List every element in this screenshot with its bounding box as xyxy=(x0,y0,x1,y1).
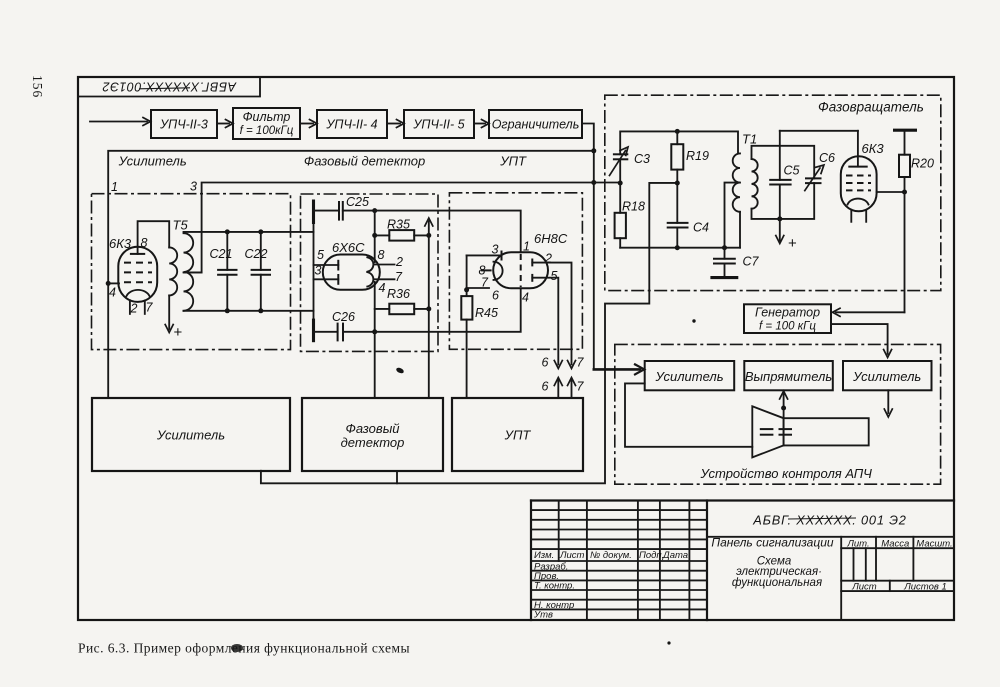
anode lead to T5 primary xyxy=(138,221,170,254)
svg-text:8: 8 xyxy=(378,248,385,262)
anode plate xyxy=(848,166,867,168)
wire: limiter output down the right side xyxy=(582,124,594,370)
T5 secondary winding xyxy=(184,233,194,311)
pin 7 stub xyxy=(144,301,146,314)
block Усилитель xyxy=(92,398,290,471)
variable capacitor drive trapezoid xyxy=(752,406,783,457)
node C3/R18/input xyxy=(618,181,623,186)
tube 6К3 (amplifier) envelope xyxy=(118,247,157,302)
svg-text:5: 5 xyxy=(551,269,558,283)
T5 primary supply lead with arrow and plus xyxy=(168,295,170,329)
svg-text:Т. контр.: Т. контр. xyxy=(534,581,575,592)
centre bus of phase detector xyxy=(374,211,376,263)
svg-text:3: 3 xyxy=(492,243,499,257)
svg-text:6К3: 6К3 xyxy=(862,141,885,156)
svg-text:Масса: Масса xyxy=(881,538,909,549)
svg-text:6К3: 6К3 xyxy=(109,236,132,251)
svg-text:Фазовый: Фазовый xyxy=(346,421,400,436)
cathode arc left triode xyxy=(494,262,503,280)
svg-text:7: 7 xyxy=(481,276,489,290)
bottom rail of phase shifter xyxy=(620,247,740,249)
feedback wire left amplifier to capacitor drive xyxy=(625,383,752,446)
tuning capacitor plates xyxy=(760,428,774,430)
svg-text:6: 6 xyxy=(542,356,549,370)
svg-text:Фильтр: Фильтр xyxy=(243,110,291,124)
grid dashes of 6К3 xyxy=(124,262,152,264)
svg-text:Т1: Т1 xyxy=(742,132,757,147)
svg-text:Дата: Дата xyxy=(662,550,688,561)
svg-text:Усилитель: Усилитель xyxy=(118,154,187,169)
block УПТ xyxy=(452,398,583,471)
tank top rail xyxy=(184,231,314,233)
resistor R18 xyxy=(615,213,626,238)
resistor R45 xyxy=(464,287,469,292)
svg-text:Фазовый детектор: Фазовый детектор xyxy=(304,154,425,169)
svg-text:№ докум.: № докум. xyxy=(590,550,632,561)
svg-text:УПЧ-II-3: УПЧ-II-3 xyxy=(159,118,208,132)
svg-text:+: + xyxy=(174,324,183,341)
svg-text:3: 3 xyxy=(190,180,197,194)
svg-text:С21: С21 xyxy=(210,247,233,261)
variable capacitor C6 xyxy=(805,177,822,179)
svg-text:4: 4 xyxy=(109,286,116,300)
block Выпрямитель xyxy=(744,361,833,390)
svg-text:С6: С6 xyxy=(819,151,835,165)
svg-text:5: 5 xyxy=(317,248,324,262)
svg-text:УПТ: УПТ xyxy=(499,154,527,169)
wire C26 to 6Н8С grid pin 4 xyxy=(375,288,521,332)
upper rail C5 to tube top cap xyxy=(780,130,858,132)
bottom pin stubs xyxy=(850,210,852,222)
wire from drive up into Выпрямитель xyxy=(783,394,785,445)
resistor R19 xyxy=(675,129,680,134)
pin 8 short bar xyxy=(481,269,492,271)
block УПЧ-II-4 xyxy=(317,110,387,138)
wire 1: top horizontal and left drop to amplifier block xyxy=(108,151,594,398)
wire Фильтр to УПЧ-II-4 xyxy=(300,123,313,125)
svg-text:С22: С22 xyxy=(245,247,268,261)
svg-text:Лист: Лист xyxy=(559,550,585,561)
top rail of phase shifter xyxy=(620,131,738,154)
svg-text:детектор: детектор xyxy=(341,435,405,450)
svg-text:156: 156 xyxy=(30,75,45,98)
svg-text:С3: С3 xyxy=(634,152,650,166)
svg-text:С26: С26 xyxy=(332,310,355,324)
svg-text:6Н8С: 6Н8С xyxy=(534,231,568,246)
svg-text:С7: С7 xyxy=(743,255,760,269)
dash-dot boundary: amplifier section xyxy=(92,194,291,350)
secondary loop top wire xyxy=(752,146,815,179)
heavy input arrow into left amplifier xyxy=(594,368,640,371)
arrow from right amplifier down xyxy=(887,390,889,413)
T5 centre tap wire xyxy=(184,271,202,273)
anode plate of 6К3 xyxy=(130,253,145,255)
node C26 / bus xyxy=(372,329,377,334)
svg-text:С4: С4 xyxy=(693,221,709,235)
node R19 bottom xyxy=(675,181,680,186)
svg-text:6: 6 xyxy=(542,380,549,394)
cathode arc of 6К3 xyxy=(127,290,150,296)
right vertical with up arrow xyxy=(428,221,430,398)
node: junction limiter/wire-1 xyxy=(591,148,596,153)
svg-text:Масшт.: Масшт. xyxy=(916,538,952,549)
pin 5 lead and cathode bar xyxy=(314,264,339,266)
svg-text:7: 7 xyxy=(577,380,585,394)
tube 6Н8С envelope xyxy=(493,252,548,288)
wire УПЧ-II-3 to Фильтр xyxy=(217,123,229,125)
anode bar pin 5 xyxy=(531,274,533,282)
block Усилитель (left) xyxy=(645,361,735,390)
wire C25 to 6Н8С grid xyxy=(375,211,521,253)
cathode arc xyxy=(848,199,869,205)
wire into generator (left arrow) xyxy=(836,311,905,313)
svg-text:3: 3 xyxy=(315,264,322,278)
capacitor C25 xyxy=(314,210,340,212)
svg-text:функциональная: функциональная xyxy=(732,577,822,589)
dash-dot boundary: AFC control unit xyxy=(615,344,941,484)
svg-text:2: 2 xyxy=(130,302,138,316)
block Фильтр f=100кГц xyxy=(233,108,300,139)
svg-text:4: 4 xyxy=(379,281,386,295)
resistor R35 xyxy=(375,234,390,236)
capacitor C21 xyxy=(226,232,228,270)
svg-text:8: 8 xyxy=(141,236,148,250)
pin 7 lead xyxy=(467,287,489,289)
pin 3 lead and cathode bar xyxy=(314,278,339,280)
node C5 bottom xyxy=(777,216,782,221)
anode arc lower diode xyxy=(367,272,373,286)
svg-text:Утв: Утв xyxy=(533,610,553,621)
top-left document number box (rotated 180) xyxy=(78,77,260,97)
wire 3: horizontal to tank centre tap xyxy=(184,183,620,273)
anode output wire to R20 node xyxy=(877,191,905,193)
svg-text:R36: R36 xyxy=(387,287,410,301)
svg-text:УПТ: УПТ xyxy=(504,428,532,443)
smudge on caption xyxy=(231,644,243,652)
pin 2 stub xyxy=(129,300,131,314)
wire УПЧ-II-4 to УПЧ-II-5 xyxy=(387,123,400,125)
secondary loop bottom wire xyxy=(752,183,815,219)
dash-dot boundary: phase detector section xyxy=(301,194,439,351)
variable capacitor C3 xyxy=(613,153,628,155)
supply lead with arrow and plus xyxy=(779,219,781,241)
ink smudge xyxy=(395,367,404,375)
svg-text:2: 2 xyxy=(544,252,552,266)
pin 3 lead with grid bar xyxy=(467,254,501,256)
tank rail junction dots xyxy=(225,229,230,234)
svg-text:Усилитель: Усилитель xyxy=(852,369,921,384)
block Усилитель (right) xyxy=(843,361,932,390)
svg-text:R45: R45 xyxy=(475,306,498,320)
sheet frame xyxy=(78,77,954,620)
svg-text:2: 2 xyxy=(395,255,403,269)
svg-text:R18: R18 xyxy=(622,200,645,214)
top cap lead into anode xyxy=(857,131,859,167)
svg-text:4: 4 xyxy=(522,291,529,305)
T1 primary winding xyxy=(733,153,740,211)
tank right-side vertical bus xyxy=(313,224,315,319)
left columns verticals xyxy=(558,501,560,562)
svg-text:Усилитель: Усилитель xyxy=(654,369,723,384)
svg-text:Устройство контроля АПЧ: Устройство контроля АПЧ xyxy=(700,466,873,481)
anode arc upper diode xyxy=(367,257,373,271)
block Ограничитель xyxy=(489,110,582,138)
wire УПЧ-II-5 to Ограничитель xyxy=(474,123,485,125)
tube 6К3 (phase shifter) envelope xyxy=(841,156,877,211)
wire R20 node down to generator xyxy=(904,192,906,312)
block УПЧ-II-5 xyxy=(404,110,474,138)
svg-text:Генератор: Генератор xyxy=(755,306,820,320)
capacitor C25 left plate bar xyxy=(312,200,315,225)
svg-text:1: 1 xyxy=(111,180,118,194)
svg-text:Рис. 6.3. Пример оформления: Рис. 6.3. Пример оформления функциональн… xyxy=(78,641,410,656)
grid dashes xyxy=(846,175,871,177)
down arrowheads wires 6 and 7 xyxy=(554,361,562,369)
block Фазовый детектор xyxy=(302,398,443,471)
svg-text:7: 7 xyxy=(395,270,403,284)
svg-text:6Х6С: 6Х6С xyxy=(332,240,365,255)
svg-text:+: + xyxy=(788,235,797,252)
svg-text:Лит.: Лит. xyxy=(846,538,869,549)
C3 lower lead to node xyxy=(619,159,621,213)
capacitor C22 xyxy=(260,232,262,270)
tank bottom rail xyxy=(184,310,314,312)
svg-text:УПЧ-II- 5: УПЧ-II- 5 xyxy=(412,118,464,132)
T1 primary bottom lead xyxy=(739,212,741,248)
svg-text:С5: С5 xyxy=(784,164,800,178)
svg-text:Изм.: Изм. xyxy=(534,550,554,561)
wire: R19 node down and around to blocks xyxy=(261,183,677,483)
capacitor C26 left plate bar xyxy=(312,319,315,343)
svg-text:Листов 1: Листов 1 xyxy=(903,581,947,592)
svg-text:Подп.: Подп. xyxy=(639,550,664,561)
node: junction limiter/wire-3 xyxy=(591,180,596,185)
pin 4 lead and junction xyxy=(106,281,111,286)
svg-text:Фазовращатель: Фазовращатель xyxy=(818,100,924,115)
title block outline xyxy=(530,501,532,621)
right part grid xyxy=(707,536,954,538)
svg-text:Ограничитель: Ограничитель xyxy=(492,118,580,132)
tube 6Х6С envelope xyxy=(323,255,380,290)
svg-text:R20: R20 xyxy=(911,157,934,171)
node C25 output xyxy=(372,208,377,213)
mechanical linkage loop xyxy=(784,418,869,445)
svg-text:1: 1 xyxy=(523,240,530,254)
svg-text:7: 7 xyxy=(146,301,154,315)
capacitor C5 xyxy=(779,131,781,180)
grid (dashed) of 6Н8С xyxy=(520,254,522,287)
T5 primary winding xyxy=(169,247,177,295)
svg-text:Лист: Лист xyxy=(851,582,877,593)
up arrow stubs into UPT block xyxy=(557,379,559,399)
capacitor C7 to chassis xyxy=(724,248,726,259)
svg-text:Т5: Т5 xyxy=(173,218,189,233)
svg-text:6: 6 xyxy=(492,289,499,303)
capacitor C26 xyxy=(314,331,338,333)
ink speck xyxy=(692,319,695,322)
wire: phase detector block stub to bottom wire xyxy=(396,471,398,483)
ink speck below title block xyxy=(667,641,670,644)
dash-dot boundary: phase shifter xyxy=(605,95,941,290)
svg-text:УПЧ-II- 4: УПЧ-II- 4 xyxy=(325,118,377,132)
input wire xyxy=(90,121,147,123)
generator output wire to right amplifier xyxy=(831,324,888,354)
pin 7 lead xyxy=(375,278,395,280)
resistor R20 xyxy=(904,130,906,155)
pin 5 lead to wire 6 xyxy=(532,278,558,365)
svg-text:Выпрямитель: Выпрямитель xyxy=(745,369,833,384)
block УПЧ-II-3 xyxy=(151,110,217,138)
anode bar pin 2 xyxy=(531,259,533,267)
dash-dot boundary: UPT section xyxy=(449,193,582,349)
svg-text:7: 7 xyxy=(577,356,585,370)
svg-text:АБВГ.ХХХХХХ.001Э2: АБВГ.ХХХХХХ.001Э2 xyxy=(102,80,237,94)
svg-text:R35: R35 xyxy=(387,218,410,232)
svg-text:f = 100 кГц: f = 100 кГц xyxy=(759,321,816,333)
svg-text:АБВГ. ХХХХХХ. 001 Э2: АБВГ. ХХХХХХ. 001 Э2 xyxy=(752,513,906,528)
T1 primary centre tap xyxy=(725,183,741,248)
svg-text:f = 100кГц: f = 100кГц xyxy=(240,125,294,137)
capacitor C4 xyxy=(667,222,689,224)
svg-text:С25: С25 xyxy=(346,195,369,209)
pin 2 lead to wire 7 xyxy=(532,263,571,365)
block Генератор f=100кГц xyxy=(744,304,831,333)
pin 2 lead xyxy=(375,264,395,266)
left triode structure: vertical link xyxy=(466,255,468,289)
svg-text:Усилитель: Усилитель xyxy=(156,428,225,443)
resistor R36 xyxy=(375,308,390,310)
R20 supply terminal bar xyxy=(893,129,917,132)
svg-text:R19: R19 xyxy=(686,149,709,163)
T1 secondary winding xyxy=(752,159,758,209)
left rows horizontals xyxy=(531,509,707,511)
